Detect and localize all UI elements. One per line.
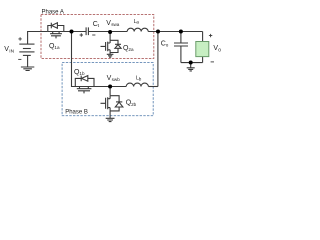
battery minus sign <box>18 58 21 60</box>
transistor Q2b body diode loop <box>110 96 119 111</box>
svg-text:swb: swb <box>112 77 121 82</box>
transistor Q1a mosfet body <box>48 31 64 33</box>
svg-text:Phase A: Phase A <box>42 9 64 15</box>
bottom rail <box>181 62 203 64</box>
ground under Q2b <box>106 118 115 121</box>
wire to load ground <box>190 63 192 68</box>
node load ground <box>189 61 193 65</box>
transistor Q2a body diode loop <box>110 40 118 52</box>
load box Vo <box>196 42 209 57</box>
transistor Q2a vertical drop and body <box>109 32 111 40</box>
ground under load <box>187 68 195 71</box>
wire Ct to node Vswa <box>88 31 110 33</box>
wire Q2b to ground <box>109 111 111 118</box>
transistor Q2b vertical drop and body <box>109 87 111 96</box>
Ct minus sign <box>92 34 95 36</box>
svg-text:b: b <box>139 76 142 81</box>
battery plus sign <box>18 33 214 62</box>
node Ct junction <box>70 30 74 34</box>
wire Q2a to ground <box>109 53 111 55</box>
node Co <box>179 30 183 34</box>
Phase B dashed box <box>62 63 153 116</box>
wire node to Q1b (riser) <box>72 32 76 87</box>
inductor Lb <box>126 83 148 86</box>
output rail <box>148 31 202 33</box>
wire battery bottom <box>27 55 29 66</box>
svg-text:o: o <box>166 43 169 48</box>
ground under Q2a <box>107 54 114 57</box>
wire Vswb to Lb <box>110 86 126 88</box>
capacitor Co <box>180 32 182 44</box>
transistor Q1a body diode loop <box>48 26 64 32</box>
capacitor Ct plates <box>86 27 88 35</box>
node Vswb <box>108 85 112 89</box>
svg-text:IN: IN <box>9 49 14 55</box>
svg-text:2b: 2b <box>131 102 137 107</box>
load top drop <box>202 32 204 42</box>
ground under battery <box>21 67 34 71</box>
node Vswa <box>108 30 112 34</box>
svg-text:Phase B: Phase B <box>65 109 88 115</box>
Ct plus sign <box>80 33 83 36</box>
load minus sign <box>211 61 214 63</box>
inductor La <box>110 31 127 33</box>
svg-text:1a: 1a <box>54 45 60 50</box>
load bottom wire <box>202 57 204 63</box>
load plus sign <box>209 34 212 37</box>
transistor Q1b mosfet body <box>72 86 111 88</box>
battery VIN plates <box>19 43 34 45</box>
Phase A dashed box <box>41 15 154 59</box>
svg-text:swa: swa <box>111 22 120 27</box>
riser from Lb to rail <box>157 32 159 87</box>
transistor Q1b body diode loop <box>75 78 94 86</box>
wire battery top to Q1a <box>28 32 48 45</box>
wire Q1a to Ct <box>64 31 86 33</box>
svg-text:1b: 1b <box>79 71 85 76</box>
svg-text:o: o <box>218 48 221 54</box>
svg-text:a: a <box>136 19 139 24</box>
svg-text:2a: 2a <box>128 47 134 52</box>
node L join <box>156 30 160 34</box>
